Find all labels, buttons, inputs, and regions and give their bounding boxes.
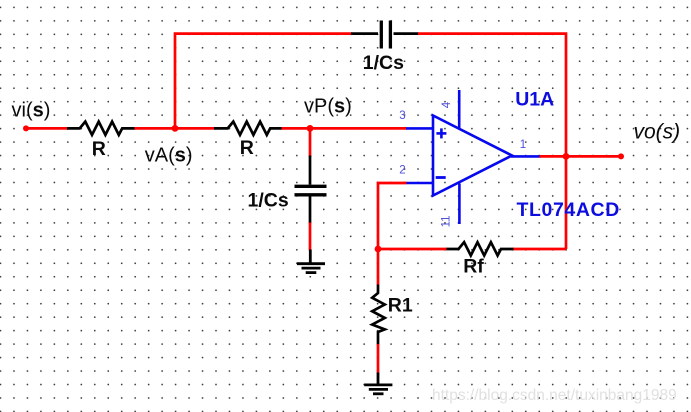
svg-text:4: 4 xyxy=(441,101,453,108)
wire op-amp output to vo(s) terminal xyxy=(540,155,622,158)
ground (below R1) xyxy=(364,373,392,394)
svg-text:Rf: Rf xyxy=(463,256,484,278)
svg-text:3: 3 xyxy=(399,110,405,122)
op-amp U1A triangle xyxy=(433,116,512,196)
svg-text:TL074ACD: TL074ACD xyxy=(517,199,620,221)
op-amp plus symbol xyxy=(436,128,446,138)
svg-text:R1: R1 xyxy=(388,294,413,316)
wire feedback junction to Rf xyxy=(378,248,447,251)
svg-text:2: 2 xyxy=(399,164,405,176)
op-amp output lead pin 1 xyxy=(511,155,541,158)
op-amp pin 2 lead xyxy=(406,182,432,185)
wire capacitor to ground stub xyxy=(309,223,312,251)
node vA junction dot xyxy=(172,125,179,132)
svg-text:1: 1 xyxy=(520,139,526,151)
wire R to R (through node vA) xyxy=(135,127,215,130)
wire vP down to capacitor xyxy=(309,128,312,157)
wire feedback junction up to pin 2 xyxy=(378,183,407,249)
svg-text:1/Cs: 1/Cs xyxy=(363,52,404,74)
op-amp pin 3 lead xyxy=(406,127,432,130)
capacitor 1/Cs (top feedback) xyxy=(351,21,419,49)
node vo(s) terminal dot xyxy=(618,153,624,159)
resistor R1 xyxy=(372,285,385,345)
ground (below shunt capacitor) xyxy=(297,250,325,273)
op-amp minus symbol xyxy=(436,176,446,179)
wire capacitor to right corner and drop to feedback xyxy=(418,34,566,249)
svg-text:11: 11 xyxy=(441,215,453,227)
svg-text:vo(s): vo(s) xyxy=(634,121,681,144)
wire R to op-amp pin 3 (through node vP) xyxy=(282,127,407,130)
svg-text:vP(s): vP(s) xyxy=(304,95,352,117)
svg-text:vi(s): vi(s) xyxy=(12,99,51,121)
resistor R (second) xyxy=(214,122,282,135)
resistor Rf xyxy=(446,242,514,255)
node output junction dot xyxy=(563,153,570,160)
svg-text:https://blog.csdn.net/tuxinban: https://blog.csdn.net/tuxinbang1989 xyxy=(432,387,677,404)
node feedback junction dot xyxy=(375,246,382,253)
node vP junction dot xyxy=(307,125,314,132)
op-amp power pin 11 line xyxy=(458,184,461,225)
wire feedback bottom right (Rf to output riser) xyxy=(513,248,567,251)
wire R1 to ground stub xyxy=(377,344,380,374)
svg-text:R: R xyxy=(92,138,106,160)
wire vA riser and top feedback run to capacitor xyxy=(175,34,352,129)
capacitor 1/Cs (vP to ground) xyxy=(295,156,327,224)
node vi(s) terminal dot xyxy=(23,125,29,131)
wire junction down to R1 xyxy=(377,249,380,285)
svg-text:R: R xyxy=(240,137,254,159)
svg-text:1/Cs: 1/Cs xyxy=(248,189,289,211)
svg-text:U1A: U1A xyxy=(515,88,554,110)
svg-text:vA(s): vA(s) xyxy=(145,145,193,167)
wire vi(s) input to R xyxy=(26,127,68,130)
resistor R (input) xyxy=(67,122,135,135)
op-amp power pin 4 line xyxy=(458,90,461,128)
